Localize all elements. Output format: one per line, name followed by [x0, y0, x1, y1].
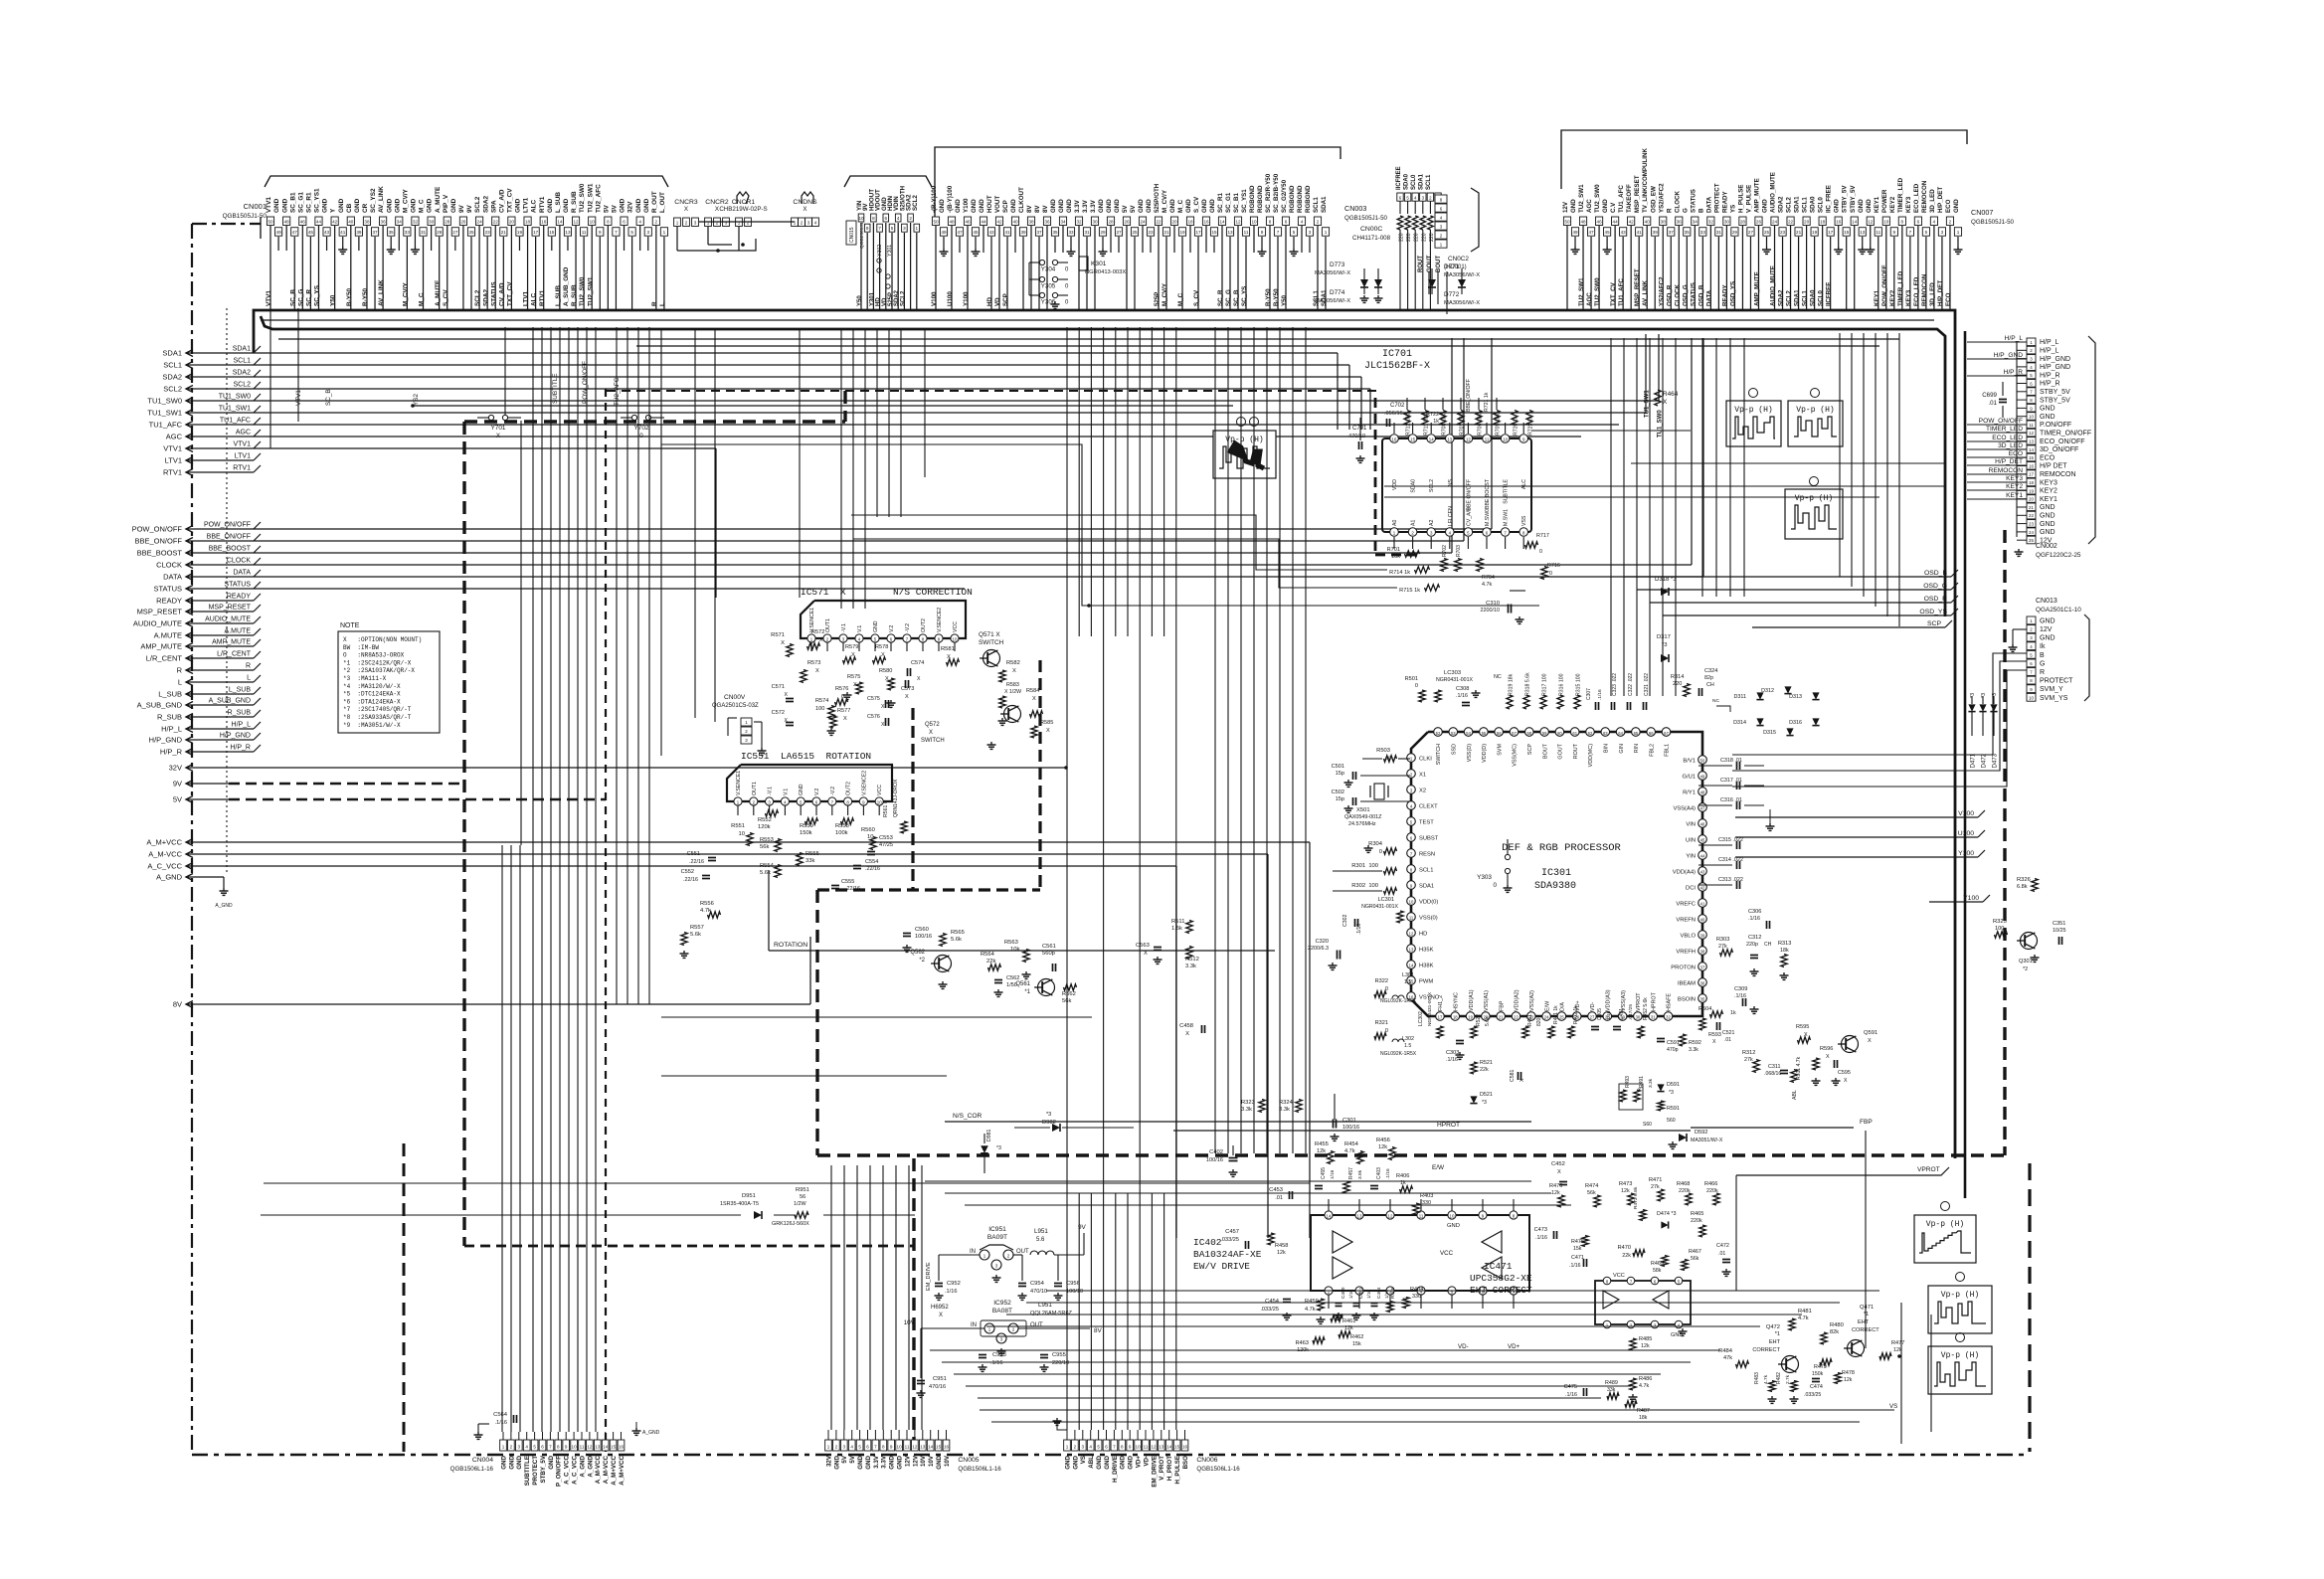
svg-text:*1: *1: [1775, 1331, 1780, 1337]
wire OSD_B: [1624, 570, 1958, 577]
svg-text:C571: C571: [772, 684, 785, 690]
svg-text:R477: R477: [1891, 1340, 1904, 1346]
svg-text:NGL092K-1R5X: NGL092K-1R5X: [1380, 1051, 1417, 1057]
left dotted vertical x228: [226, 308, 228, 875]
svg-text:33k: 33k: [805, 858, 814, 864]
svg-text:X: X: [1185, 1031, 1189, 1037]
diode D951 R951: [720, 1187, 809, 1227]
svg-text:Y302: Y302: [877, 245, 883, 257]
svg-text:D312: D312: [1761, 688, 1774, 694]
svg-text:Q572: Q572: [925, 722, 940, 728]
svg-text:C954: C954: [1030, 1281, 1045, 1287]
border frame right dashed line: [2028, 1163, 2031, 1452]
svg-text:H38K: H38K: [1419, 964, 1434, 969]
svg-text:X2: X2: [1419, 789, 1426, 794]
svg-text:G: G: [2040, 660, 2045, 667]
wire bottom long b: [991, 1421, 1860, 1423]
svg-text:STATUS: STATUS: [224, 582, 251, 589]
svg-text:C491: C491: [1619, 1008, 1625, 1020]
svg-text:X: X: [781, 640, 785, 646]
svg-text:X: X: [1012, 668, 1016, 674]
svg-text:VTV1: VTV1: [163, 444, 182, 453]
jumper Y701: [477, 415, 521, 439]
svg-text:QGB1505J1-50: QGB1505J1-50: [1344, 215, 1388, 222]
svg-text:18k: 18k: [1780, 948, 1789, 954]
svg-text:C560: C560: [915, 927, 929, 933]
resistors R323 R324: [1241, 1100, 1302, 1114]
svg-text:50: 50: [933, 220, 939, 225]
svg-text:X: X: [843, 716, 847, 722]
IC701 dashed horizontal y558: [1375, 554, 1422, 557]
svg-text:R/Y1: R/Y1: [1683, 790, 1696, 796]
svg-text:CLOCK: CLOCK: [1674, 190, 1681, 213]
svg-text:-(B-Y)100: -(B-Y)100: [947, 185, 954, 213]
svg-text:3.3k: 3.3k: [1648, 1078, 1654, 1088]
svg-text:SDA2: SDA2: [162, 373, 182, 382]
svg-text:44: 44: [981, 220, 986, 225]
svg-text:NC: NC: [1712, 698, 1719, 704]
svg-text:R451: R451: [1527, 1014, 1533, 1026]
svg-text:38: 38: [1028, 220, 1034, 225]
svg-text:KEY2: KEY2: [2040, 488, 2057, 495]
diode D981: [981, 1129, 1001, 1173]
svg-text:32: 32: [1076, 220, 1082, 225]
svg-text:L/R_CENT: L/R_CENT: [217, 651, 252, 658]
svg-text:A_MUTE: A_MUTE: [435, 186, 442, 213]
svg-text:TU2_SW1: TU2_SW1: [1578, 184, 1585, 213]
svg-text:X1: X1: [1419, 773, 1426, 779]
svg-text:GND: GND: [2040, 504, 2056, 511]
wire R to CN013: [1732, 670, 2027, 787]
svg-text:GND: GND: [955, 199, 962, 213]
svg-text:1SR35-400A-T5: 1SR35-400A-T5: [720, 1201, 759, 1207]
svg-text:53: 53: [1451, 731, 1456, 736]
svg-text:5V: 5V: [173, 795, 182, 804]
svg-text:H/P_GND: H/P_GND: [2040, 364, 2070, 371]
svg-text:SC_G: SC_G: [1225, 289, 1232, 306]
svg-text:R585: R585: [1040, 720, 1053, 726]
svg-text:R_SUB: R_SUB: [228, 710, 252, 717]
svg-text:B: B: [1698, 208, 1704, 213]
svg-text:BA08T: BA08T: [992, 1308, 1012, 1315]
svg-text:5: 5: [891, 226, 894, 231]
svg-text:VD+: VD+: [1508, 1343, 1520, 1350]
svg-text:L301: L301: [1402, 972, 1414, 978]
svg-text:IN: IN: [970, 1249, 976, 1255]
svg-text:SC_B1: SC_B1: [1233, 192, 1240, 213]
svg-text:R578: R578: [875, 644, 888, 650]
svg-text:10V: 10V: [928, 1455, 935, 1467]
svg-text:SCL2: SCL2: [1786, 290, 1793, 306]
svg-text:L_OUT: L_OUT: [659, 192, 666, 213]
svg-text:220: 220: [1673, 681, 1682, 687]
svg-text:10: 10: [739, 831, 745, 837]
svg-text:18: 18: [1187, 220, 1193, 225]
svg-text:11: 11: [1876, 230, 1880, 235]
svg-text:V100: V100: [931, 291, 938, 306]
svg-text:5V: 5V: [603, 204, 610, 213]
svg-text:C322 .022: C322 .022: [1628, 673, 1634, 696]
svg-text:R482: R482: [1776, 1372, 1782, 1384]
svg-text:11: 11: [1485, 438, 1490, 442]
svg-text:C454: C454: [1265, 1299, 1280, 1305]
svg-text:R521: R521: [1480, 1060, 1493, 1066]
svg-text:8: 8: [1269, 220, 1272, 225]
svg-text:M_CV/Y: M_CV/Y: [402, 188, 409, 213]
svg-text:1: 1: [707, 221, 710, 226]
node STATUS flag: [154, 582, 965, 594]
svg-text:18k: 18k: [1639, 1415, 1648, 1421]
svg-text:A0: A0: [1392, 520, 1398, 526]
svg-text:SUBTITLE: SUBTITLE: [1504, 478, 1510, 503]
svg-text:IC471: IC471: [1484, 1261, 1513, 1272]
svg-text:57: 57: [1512, 731, 1517, 736]
svg-text:40: 40: [1700, 918, 1705, 923]
svg-text:V.SENCE2: V.SENCE2: [937, 608, 943, 632]
svg-text:SVM_Y: SVM_Y: [2040, 686, 2063, 693]
label CN001 net names: [266, 266, 666, 306]
svg-text:R574: R574: [815, 698, 828, 704]
svg-text:36: 36: [381, 220, 387, 225]
wire 8V: [186, 937, 810, 1004]
wire OSD_R: [1650, 596, 1958, 603]
svg-text:22: 22: [493, 220, 499, 225]
svg-text:100/16: 100/16: [1206, 1157, 1223, 1163]
svg-text:SWITCH: SWITCH: [921, 738, 945, 744]
node H/P_R flag: [160, 745, 261, 757]
svg-text:C564: C564: [493, 1412, 508, 1418]
svg-text:PROTON: PROTON: [1671, 965, 1696, 971]
svg-text:X: X: [1712, 1039, 1716, 1045]
svg-text:D316: D316: [1789, 720, 1802, 726]
node AUDIO_MUTE flag: [133, 616, 261, 628]
svg-text:12: 12: [2029, 431, 2034, 436]
svg-text:3.3k: 3.3k: [1689, 1047, 1698, 1053]
svg-text:A_M+VCC: A_M+VCC: [619, 1455, 626, 1485]
svg-text:22: 22: [1156, 220, 1162, 225]
svg-text:R481: R481: [1798, 1309, 1812, 1315]
svg-text:A_M-VCC: A_M-VCC: [148, 850, 182, 859]
label CN003 net names: [931, 282, 1328, 306]
svg-text:M_CV/Y: M_CV/Y: [1162, 189, 1168, 213]
svg-text:55: 55: [1482, 731, 1487, 736]
svg-text:R454: R454: [1344, 1141, 1359, 1147]
svg-text:.22/16: .22/16: [689, 859, 704, 865]
svg-text:X :OPTION(NON MOUNT): X :OPTION(NON MOUNT): [343, 636, 422, 643]
svg-text:R708 10k: R708 10k: [1442, 413, 1448, 436]
svg-text:R707 10k: R707 10k: [1460, 413, 1466, 436]
svg-text:OSD_R: OSD_R: [1924, 596, 1948, 603]
svg-text:25: 25: [1559, 1015, 1564, 1020]
svg-text:*2: *2: [2023, 966, 2028, 972]
svg-text:B-Y50: B-Y50: [346, 287, 353, 306]
svg-text:8V: 8V: [1034, 205, 1041, 213]
svg-text:R312: R312: [1742, 1050, 1755, 1056]
svg-text:40: 40: [1012, 220, 1018, 225]
svg-text:C313 .022: C313 .022: [1718, 877, 1743, 883]
svg-text:21: 21: [1796, 230, 1802, 235]
note box: [338, 622, 440, 733]
wires CN002 left side labels: [1967, 335, 2027, 499]
label mid net names: [295, 361, 621, 406]
svg-text:TU1_SW0: TU1_SW0: [147, 397, 182, 406]
svg-text:FBP: FBP: [1499, 1000, 1505, 1011]
svg-text:M.SW0: M.SW0: [1485, 509, 1491, 526]
svg-text:18: 18: [1820, 220, 1826, 225]
svg-text:5.6k: 5.6k: [1485, 1016, 1491, 1026]
svg-text:X501: X501: [1356, 807, 1370, 813]
svg-text:1/16: 1/16: [1606, 1010, 1612, 1020]
svg-text:X: X: [785, 718, 789, 724]
svg-text:43: 43: [1621, 230, 1627, 235]
svg-text:19: 19: [2029, 488, 2034, 493]
svg-text:3.3V: 3.3V: [881, 1455, 888, 1469]
svg-text:M.SW1: M.SW1: [1504, 509, 1510, 526]
svg-text:C956: C956: [1066, 1281, 1080, 1287]
svg-text:120k: 120k: [758, 824, 771, 830]
svg-text:1: 1: [1066, 1445, 1069, 1450]
svg-text:3D_LED: 3D_LED: [1929, 282, 1936, 306]
svg-text:1: 1: [502, 1445, 505, 1450]
svg-text:27: 27: [1748, 230, 1754, 235]
svg-text:D982: D982: [1042, 1120, 1056, 1126]
svg-text:R402 1k: R402 1k: [1573, 1005, 1579, 1024]
svg-text:10V: 10V: [944, 1455, 951, 1467]
wire web EM drive horizontals: [925, 1181, 1571, 1205]
svg-text:9: 9: [565, 1445, 568, 1450]
svg-text:X: X: [881, 722, 885, 728]
svg-text:100: 100: [1995, 926, 2004, 932]
svg-text:.22/16: .22/16: [845, 886, 860, 892]
connector CNDNS: [792, 192, 819, 227]
svg-text:CB: CB: [346, 203, 353, 213]
svg-text:G: G: [1682, 208, 1689, 213]
svg-text:0: 0: [1415, 683, 1418, 689]
svg-text:C400: C400: [1341, 1287, 1346, 1299]
wire vert x804: [799, 329, 801, 598]
svg-text:KEY2: KEY2: [1889, 289, 1896, 306]
svg-text:R318 5.6k: R318 5.6k: [1525, 672, 1531, 696]
svg-text:R472 6.8k: R472 6.8k: [1633, 1186, 1639, 1209]
svg-text:31: 31: [1716, 230, 1722, 235]
svg-text:R311 4.7k: R311 4.7k: [1796, 1056, 1802, 1080]
svg-text:AGC: AGC: [236, 430, 251, 437]
svg-text:47: 47: [292, 230, 298, 235]
components IC471 cluster: [1534, 1177, 1731, 1421]
svg-text:AV_LINK: AV_LINK: [1642, 279, 1649, 306]
svg-text:LC301: LC301: [1378, 897, 1394, 903]
svg-text:CV_A/D: CV_A/D: [498, 189, 505, 213]
svg-text:R577: R577: [837, 708, 850, 714]
svg-text:4.7k: 4.7k: [700, 908, 711, 914]
svg-text:GND: GND: [1058, 199, 1065, 213]
svg-text:MSP_RESET: MSP_RESET: [137, 608, 183, 616]
svg-text:8V: 8V: [173, 1000, 182, 1009]
svg-text:R476: R476: [1549, 1183, 1562, 1189]
svg-text:R721 1k: R721 1k: [1484, 392, 1490, 412]
svg-text:56k: 56k: [760, 844, 769, 850]
svg-text:A_M+VCC: A_M+VCC: [611, 1455, 618, 1485]
svg-text:QGA2501C1-10: QGA2501C1-10: [2036, 607, 2081, 614]
svg-text:34: 34: [1693, 220, 1698, 225]
connector CN003: [931, 147, 1391, 242]
svg-text:25: 25: [1132, 230, 1138, 235]
connector CN015: [844, 176, 932, 249]
node AGC flag: [166, 430, 1581, 441]
svg-text:49: 49: [1572, 230, 1578, 235]
svg-text:16: 16: [541, 220, 547, 225]
svg-text:3.9k: 3.9k: [1357, 1169, 1363, 1179]
svg-text:C312: C312: [1748, 935, 1761, 941]
connector CNCR1: [719, 192, 767, 227]
svg-text:R723 1k: R723 1k: [1528, 416, 1534, 436]
svg-text:0: 0: [1494, 882, 1498, 889]
svg-text:SCP: SCP: [1527, 744, 1533, 755]
svg-text:CN015: CN015: [849, 227, 855, 243]
svg-text:N/S CORRECTION: N/S CORRECTION: [893, 587, 973, 598]
resistors IC701 bottom: [1387, 533, 1560, 594]
svg-text:A_GND: A_GND: [579, 1455, 586, 1477]
svg-text:Vp-p (H): Vp-p (H): [1941, 1351, 1979, 1360]
svg-text:(HD001): (HD001): [1444, 264, 1467, 270]
svg-text:10: 10: [1450, 1214, 1455, 1219]
svg-text:40: 40: [348, 220, 354, 225]
svg-text:3.3k: 3.3k: [1279, 1107, 1290, 1113]
svg-text:PIP_V: PIP_V: [443, 194, 449, 213]
svg-text:PROTECT: PROTECT: [532, 1456, 539, 1486]
svg-text:GND: GND: [2040, 406, 2056, 413]
svg-text:VSS(MC): VSS(MC): [1513, 744, 1519, 767]
svg-text:10: 10: [1251, 220, 1257, 225]
svg-text:H/P_GND: H/P_GND: [2040, 356, 2070, 363]
svg-text:R951: R951: [796, 1187, 809, 1193]
svg-text:GND: GND: [1447, 1223, 1460, 1229]
svg-text:SC_YS1: SC_YS1: [314, 188, 321, 213]
svg-text:TU2_SW0: TU2_SW0: [1594, 277, 1601, 306]
svg-text:TAKEOFF: TAKEOFF: [1626, 184, 1633, 213]
svg-text:R557: R557: [690, 925, 704, 931]
svg-text:A_C_VCC: A_C_VCC: [564, 1455, 571, 1484]
svg-text:D313: D313: [1789, 694, 1802, 700]
svg-text:R: R: [1666, 208, 1673, 213]
svg-text:39: 39: [1020, 230, 1026, 235]
svg-text:35: 35: [1700, 997, 1705, 1002]
svg-text:VDD(A4): VDD(A4): [1673, 870, 1696, 876]
svg-text:RTV1: RTV1: [233, 465, 251, 472]
svg-text:R702: R702: [1442, 545, 1448, 557]
svg-text:4.7k: 4.7k: [1305, 1307, 1316, 1313]
svg-text:C555: C555: [841, 879, 854, 885]
svg-text:17: 17: [1195, 230, 1201, 235]
svg-text:ECO_LED: ECO_LED: [1913, 276, 1920, 306]
svg-text:R573: R573: [807, 660, 820, 666]
svg-text:A_M-VCC: A_M-VCC: [595, 1455, 602, 1484]
svg-text:525P: 525P: [888, 292, 894, 306]
svg-text:Y304: Y304: [1041, 266, 1056, 273]
svg-text:C.V: C.V: [1610, 202, 1617, 213]
node MSP_RESET flag: [137, 605, 261, 616]
svg-text:H6952: H6952: [931, 1305, 949, 1311]
svg-text:R717: R717: [1536, 533, 1549, 539]
node RTV1 flag: [163, 465, 261, 477]
svg-text:560p: 560p: [1042, 951, 1055, 957]
svg-text:R404: R404: [1410, 1287, 1423, 1293]
svg-text:VS: VS: [1080, 1456, 1087, 1464]
svg-text:GND: GND: [411, 198, 418, 213]
wire TU1_SW0 vertical: [1658, 334, 1660, 401]
svg-text:GND: GND: [516, 1455, 523, 1469]
svg-text:A_C_VCC: A_C_VCC: [572, 1455, 579, 1484]
svg-text:GND: GND: [1128, 1455, 1135, 1469]
svg-text:24: 24: [2029, 530, 2034, 535]
svg-text:R560: R560: [861, 827, 875, 833]
svg-text:R572: R572: [811, 629, 824, 635]
svg-text:BA09T: BA09T: [987, 1234, 1007, 1241]
svg-text:C561: C561: [1042, 944, 1056, 950]
jumper Y303: [1477, 839, 1512, 892]
svg-text:15: 15: [1844, 230, 1850, 235]
svg-text:8: 8: [607, 220, 610, 225]
svg-text:GND: GND: [1114, 199, 1121, 213]
svg-text:1: 1: [1957, 230, 1960, 235]
wire bundle left verticals: [502, 327, 649, 1432]
resistors IC701 top row: [1404, 379, 1534, 436]
svg-text:R468: R468: [1677, 1181, 1690, 1187]
svg-text:GND: GND: [1104, 1455, 1111, 1469]
svg-text:Vp-p (H): Vp-p (H): [1796, 406, 1834, 415]
svg-text:26: 26: [460, 220, 466, 225]
svg-text:28: 28: [445, 220, 450, 225]
svg-text:H/P_L: H/P_L: [161, 725, 182, 734]
svg-text:VCC: VCC: [1440, 1250, 1454, 1257]
svg-text:50: 50: [1564, 220, 1570, 225]
svg-text:GND: GND: [1050, 199, 1057, 213]
svg-text:4: 4: [1089, 1445, 1092, 1450]
svg-text:22k: 22k: [1622, 1253, 1631, 1259]
svg-text:SCL2: SCL2: [474, 289, 481, 306]
audio board dashed horizontal y424: [464, 420, 845, 423]
svg-text:ECO: ECO: [2040, 454, 2056, 461]
svg-text:AMP_MUTE: AMP_MUTE: [1754, 178, 1761, 213]
waveform box top right 1: [1726, 389, 1781, 447]
svg-text:SWITCH: SWITCH: [979, 639, 1004, 646]
svg-text:SDA1: SDA1: [1419, 884, 1434, 890]
svg-text:VCC: VCC: [953, 621, 959, 632]
svg-text:H/P_GND: H/P_GND: [149, 736, 183, 745]
svg-text:M_C: M_C: [1177, 292, 1184, 306]
svg-text:SC_R: SC_R: [306, 289, 313, 306]
svg-text:12V: 12V: [912, 1455, 919, 1467]
svg-text:10k: 10k: [1010, 947, 1019, 953]
wire thick bus 1: [254, 310, 1955, 1158]
svg-text:1: 1: [827, 1445, 830, 1450]
svg-text:9: 9: [599, 230, 602, 235]
svg-text:R491: R491: [1639, 1076, 1645, 1088]
svg-text:IICFREE: IICFREE: [1826, 282, 1833, 306]
svg-text:R317 100: R317 100: [1542, 673, 1548, 696]
svg-text:SC_B: SC_B: [289, 289, 296, 306]
svg-text:27: 27: [1590, 1015, 1595, 1020]
svg-text:.1/16: .1/16: [1356, 924, 1362, 935]
svg-text:20: 20: [1804, 220, 1810, 225]
connector I2C header with R772-R775 220 resistors: [1396, 166, 1441, 310]
svg-text:DATA: DATA: [1705, 289, 1712, 306]
jumpers Y301 Y302: [877, 245, 893, 288]
svg-text:SC_B1: SC_B1: [289, 192, 296, 213]
svg-text:25: 25: [2029, 538, 2034, 543]
svg-text:R_SUB: R_SUB: [157, 713, 182, 722]
wire B to CN013: [1732, 653, 2027, 755]
